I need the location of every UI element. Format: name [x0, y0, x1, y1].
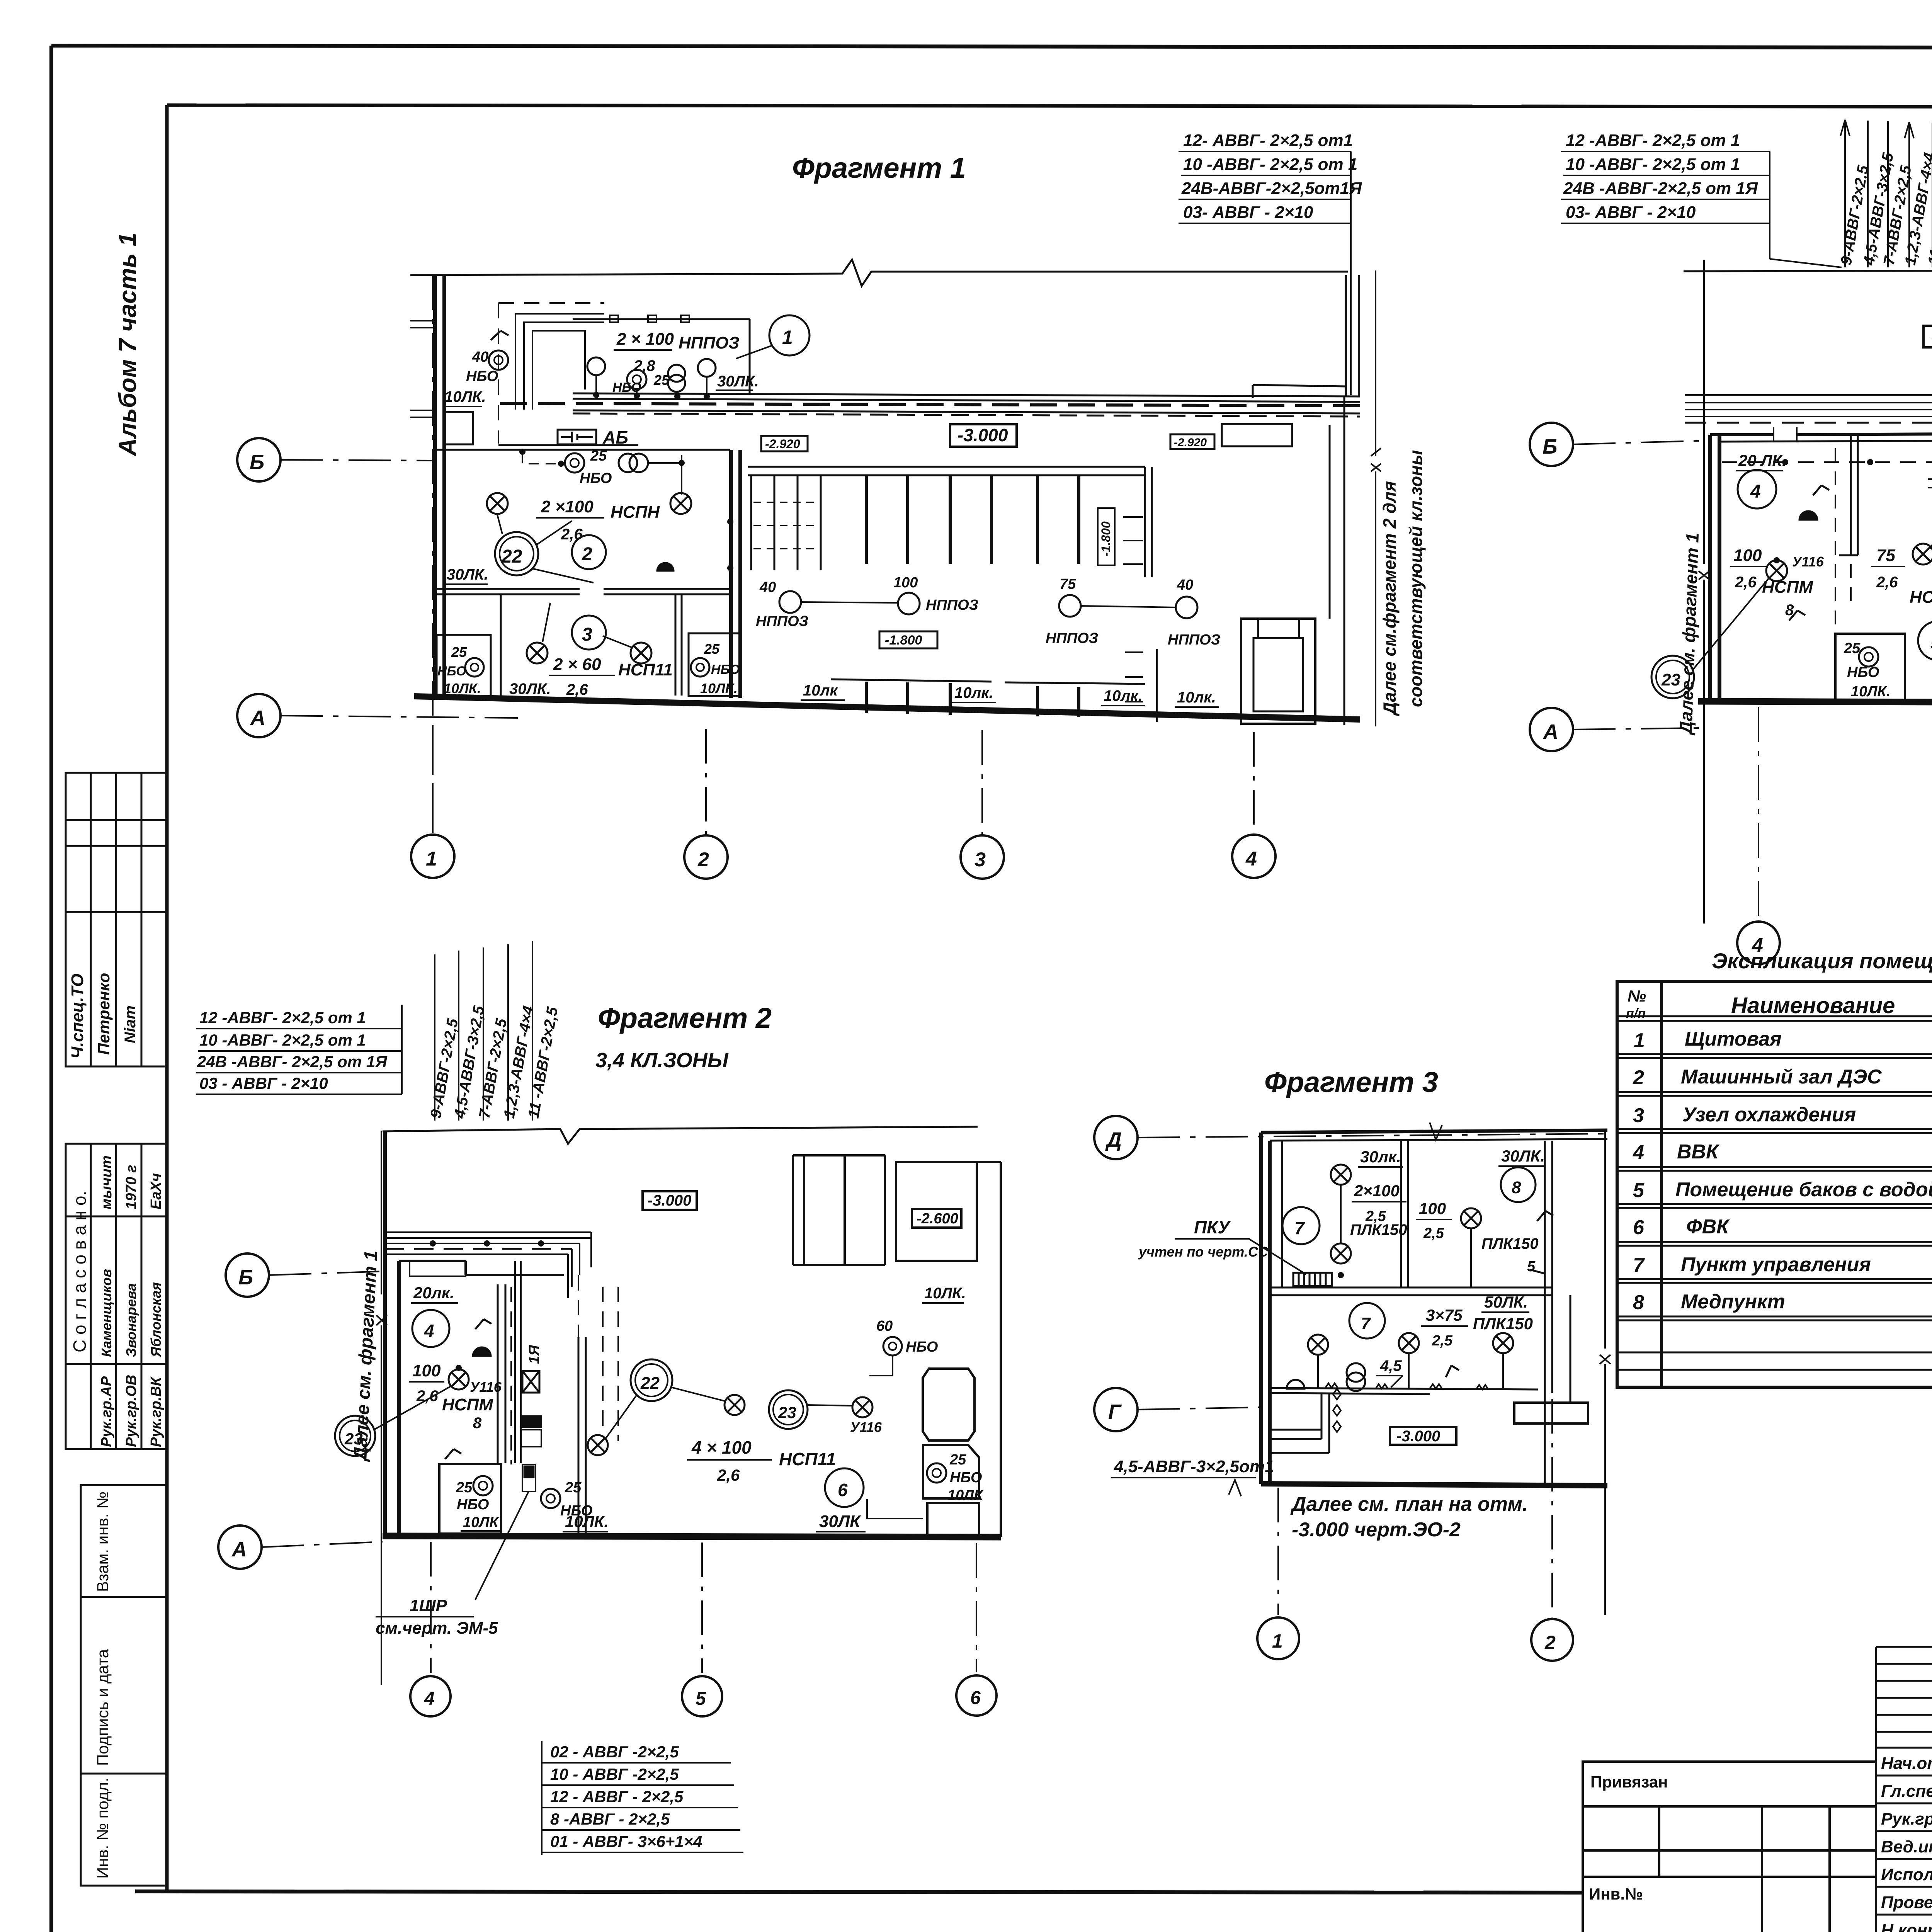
svg-text:22: 22: [640, 1374, 660, 1393]
lamp x right f2b: [852, 1397, 872, 1417]
svg-text:Узел охлаждения: Узел охлаждения: [1682, 1104, 1856, 1126]
svg-text:2,6: 2,6: [717, 1466, 740, 1484]
room 6 circle f2b: [825, 1468, 864, 1507]
right room walls: [1253, 385, 1346, 725]
stairs left f3: [1270, 1393, 1329, 1453]
svg-text:4,5-АВВГ-3×2,5от1: 4,5-АВВГ-3×2,5от1: [1114, 1457, 1274, 1476]
vent rect top right: [1222, 424, 1292, 446]
SECTION: leftmargin: [66, 233, 167, 1886]
svg-text:2 × 60: 2 × 60: [553, 655, 601, 674]
SECTION: frag2top: [1530, 120, 1932, 964]
switches f2b: [445, 1319, 492, 1459]
svg-text:10 -АВВГ- 2×2,5 от 1: 10 -АВВГ- 2×2,5 от 1: [1566, 155, 1740, 174]
svg-text:7: 7: [1633, 1254, 1645, 1277]
right wall f2b: [977, 1162, 1001, 1537]
svg-text:Нач.отд: Нач.отд: [1881, 1754, 1932, 1773]
svg-text:10ЛК.: 10ЛК.: [565, 1512, 609, 1531]
wire right f2b: [867, 1355, 923, 1519]
bottom note f3: [1290, 1493, 1528, 1541]
cut line left f2b: [381, 1131, 382, 1685]
svg-text:75: 75: [1060, 576, 1076, 592]
column circle 5 f2b: [682, 1676, 722, 1716]
svg-text:Альбом 7 часть 1: Альбом 7 часть 1: [114, 233, 141, 457]
svg-text:НППОЗ: НППОЗ: [1046, 630, 1098, 646]
svg-text:НБО: НБО: [950, 1469, 982, 1486]
column circle 1 f3: [1257, 1617, 1299, 1659]
lamp sconce 25 room1: [627, 370, 646, 389]
svg-text:3: 3: [582, 624, 592, 645]
box -3.000 f2b: [643, 1191, 697, 1210]
SECTION: frag1: [237, 131, 1426, 879]
svg-text:40: 40: [759, 579, 776, 595]
svg-text:20 ЛК.: 20 ЛК.: [1738, 451, 1787, 469]
svg-text:ПЛК150: ПЛК150: [1473, 1315, 1533, 1333]
transformer lamp room2: [619, 454, 637, 472]
svg-text:5: 5: [1930, 633, 1932, 653]
top wall f2: [1710, 433, 1932, 435]
svg-text:Звонарева: Звонарева: [123, 1283, 139, 1357]
svg-text:Далее см. план на отм.: Далее см. план на отм.: [1290, 1493, 1528, 1515]
wires room2: [649, 455, 730, 568]
svg-text:Б: Б: [1543, 435, 1557, 458]
lamp pendant room1 right: [698, 359, 716, 377]
axis Г f3: [1094, 1388, 1138, 1431]
svg-text:ВВК: ВВК: [1677, 1141, 1719, 1163]
svg-text:8: 8: [1633, 1291, 1644, 1314]
axis А circle: [237, 694, 281, 737]
svg-text:НБО: НБО: [437, 664, 466, 679]
svg-text:8: 8: [473, 1415, 482, 1432]
svg-text:4 × 100: 4 × 100: [691, 1437, 752, 1458]
lamp x room8 f3: [1461, 1208, 1481, 1228]
group 23 circle left f2: [1651, 656, 1694, 698]
svg-text:НСПМ: НСПМ: [1762, 578, 1813, 597]
svg-text:1ШР: 1ШР: [410, 1596, 447, 1615]
wires dashed room4 f2: [1835, 448, 1851, 634]
axis verticals to column circles: [433, 726, 1254, 834]
svg-text:02 - АВВГ -2×2,5: 02 - АВВГ -2×2,5: [550, 1743, 679, 1761]
svg-text:40: 40: [1177, 577, 1193, 593]
svg-text:Наименование: Наименование: [1731, 993, 1895, 1018]
svg-text:23: 23: [778, 1403, 796, 1422]
building top line f2: [1684, 257, 1932, 283]
platform right f3: [1514, 1403, 1588, 1423]
box -3.000 f3: [1390, 1427, 1456, 1445]
lamp x room2 left: [487, 493, 508, 514]
axis Б f2: [1530, 423, 1573, 466]
label 2x100/2,8 НППОЗ: [612, 330, 759, 395]
box 25 НБО bottom f2b: [439, 1464, 501, 1534]
Подпись и дата cell: [81, 1597, 167, 1774]
svg-text:4,5: 4,5: [1380, 1357, 1402, 1374]
box -2.920 left: [761, 436, 808, 451]
svg-text:ПКУ: ПКУ: [1194, 1217, 1231, 1237]
svg-text:Рук.гр.АР: Рук.гр.АР: [99, 1376, 115, 1447]
box 25 НБО right f2b: [923, 1445, 979, 1498]
switch bottom f3: [1446, 1366, 1459, 1377]
svg-text:С о г л а с о в а н о.: С о г л а с о в а н о.: [70, 1191, 90, 1352]
svg-text:Петренко: Петренко: [95, 973, 113, 1055]
axis line 1 vertical: [432, 275, 434, 833]
room3 walls: [501, 594, 682, 696]
lamp x room3 left: [527, 643, 548, 663]
svg-text:Д: Д: [1105, 1128, 1122, 1151]
svg-text:см.черт. ЭМ-5: см.черт. ЭМ-5: [376, 1619, 498, 1638]
table rows: [1633, 1028, 1932, 1314]
svg-text:-3.000 черт.ЭО-2: -3.000 черт.ЭО-2: [1292, 1519, 1461, 1541]
svg-text:100: 100: [1419, 1199, 1446, 1218]
svg-text:24В -АВВГ- 2×2,5 от 1Я: 24В -АВВГ- 2×2,5 от 1Я: [197, 1053, 388, 1071]
left wall f2b: [385, 1131, 399, 1536]
Инв.№подл cell: [81, 1774, 167, 1886]
sconce 25 НБО center f2b: [541, 1489, 560, 1508]
Согласовано block: [66, 1144, 167, 1449]
svg-text:НБО: НБО: [466, 368, 498, 384]
cable fan labels fragment 2 top: [1838, 120, 1932, 267]
battery room conduit rails: [515, 314, 604, 410]
SECTION: titleblock: [1583, 1647, 1932, 1932]
cable bundle f2b: [385, 1232, 591, 1254]
svg-text:2: 2: [1544, 1632, 1556, 1653]
svg-text:2,5: 2,5: [1423, 1225, 1444, 1242]
svg-text:Рук.гр.ОВ: Рук.гр.ОВ: [123, 1375, 139, 1447]
wire top outline of building: [410, 260, 1348, 286]
wall left double: [435, 275, 444, 698]
svg-text:Гл.спец.: Гл.спец.: [1881, 1782, 1932, 1801]
svg-text:Инв.№: Инв.№: [1589, 1885, 1643, 1903]
svg-text:03- АВВГ - 2×10: 03- АВВГ - 2×10: [1183, 203, 1313, 222]
box -1.800 mid: [879, 631, 937, 648]
svg-text:30лк.: 30лк.: [1360, 1148, 1401, 1166]
wall vertical right of rooms: [731, 450, 740, 698]
svg-text:НБО: НБО: [1847, 664, 1879, 680]
svg-text:-2.600: -2.600: [917, 1211, 958, 1227]
hall upper ticks: [866, 476, 1079, 564]
svg-text:25: 25: [1844, 640, 1861, 656]
lamp twin room1: [668, 365, 685, 382]
svg-text:10 -АВВГ- 2×2,5 от 1: 10 -АВВГ- 2×2,5 от 1: [199, 1031, 366, 1049]
SECTION: table: [1617, 949, 1932, 1387]
svg-text:2,5: 2,5: [1432, 1333, 1453, 1349]
svg-text:-3.000: -3.000: [648, 1192, 691, 1209]
dome lamp f3: [1287, 1380, 1304, 1389]
inner drawing frame left: [165, 105, 169, 1891]
svg-text:НСПМ: НСПМ: [1910, 588, 1932, 607]
column circle 6 f2b: [956, 1675, 997, 1716]
svg-text:НБО: НБО: [580, 470, 612, 486]
axis Б circle: [237, 438, 281, 481]
building top line f2b: [383, 1127, 978, 1144]
svg-text:-2.920: -2.920: [765, 437, 800, 451]
svg-text:8: 8: [1512, 1178, 1521, 1197]
left margin cells with rotated entries: [66, 912, 167, 1066]
wire between lamps room7 f3: [1340, 1185, 1342, 1243]
axis verticals f3: [1278, 1399, 1552, 1617]
svg-text:2 ×100: 2 ×100: [541, 497, 594, 516]
svg-text:2×100: 2×100: [1354, 1182, 1400, 1200]
alcove rect f2b: [410, 1261, 466, 1276]
svg-text:1Я: 1Я: [526, 1345, 543, 1364]
svg-text:22: 22: [501, 546, 522, 567]
plan outline f3: [1261, 1133, 1270, 1484]
axis Б f2b: [226, 1253, 269, 1297]
svg-text:-3.000: -3.000: [957, 425, 1008, 445]
black boxes f2b: [521, 1416, 541, 1427]
Взам.инв. cell: [81, 1485, 167, 1597]
column circle 4: [1232, 835, 1276, 878]
twin circles lamp f3: [1347, 1363, 1365, 1382]
inner partitions f3: [1282, 1141, 1408, 1287]
svg-text:ЕаХч: ЕаХч: [148, 1173, 164, 1209]
svg-text:12- АВВГ- 2×2,5 от1: 12- АВВГ- 2×2,5 от1: [1183, 131, 1353, 150]
svg-text:1970 г: 1970 г: [123, 1165, 139, 1209]
svg-text:НБО: НБО: [906, 1339, 938, 1355]
leader circle 1: [769, 315, 810, 355]
svg-text:25: 25: [456, 1480, 473, 1496]
group 23 circle mid f2b: [769, 1390, 808, 1429]
svg-text:2,6: 2,6: [1735, 574, 1757, 591]
svg-text:2,6: 2,6: [561, 526, 583, 543]
svg-text:2,6: 2,6: [1876, 574, 1898, 591]
niche box: [444, 412, 473, 444]
cable fan labels fragment 2 lower: [427, 941, 561, 1121]
break bottom f3: [1229, 1480, 1241, 1496]
label 4x100 f2b: [691, 1437, 836, 1484]
left margin approval table top: [66, 773, 167, 912]
X vent box f2b: [522, 1371, 539, 1393]
main room left wall f2: [1710, 435, 1719, 701]
room 7 bottom f3: [1349, 1303, 1385, 1338]
room 5 f2: [1918, 621, 1932, 660]
tank f2b: [923, 1369, 975, 1440]
svg-text:п/п: п/п: [1626, 1006, 1646, 1021]
cable list fragment 1: [1179, 131, 1362, 395]
axis А f2: [1530, 708, 1573, 751]
svg-text:10ЛК: 10ЛК: [463, 1514, 499, 1531]
svg-text:03- АВВГ - 2×10: 03- АВВГ - 2×10: [1566, 203, 1696, 222]
switch hook top left: [491, 331, 509, 340]
svg-text:4: 4: [424, 1689, 435, 1709]
svg-text:Г: Г: [1108, 1400, 1122, 1423]
svg-text:100: 100: [412, 1361, 441, 1380]
svg-text:4: 4: [1245, 848, 1257, 870]
group 22 circle f2b: [631, 1359, 672, 1401]
svg-text:Рук.гр.ВК: Рук.гр.ВК: [148, 1376, 164, 1447]
svg-text:Рук.гр.: Рук.гр.: [1881, 1810, 1932, 1828]
box room bottom-left: [437, 635, 491, 696]
svg-text:Пункт управления: Пункт управления: [1681, 1253, 1871, 1276]
svg-text:03 - АВВГ - 2×10: 03 - АВВГ - 2×10: [199, 1074, 328, 1092]
room 7 top f3: [1282, 1207, 1320, 1244]
lamp pendant NBO room1: [587, 357, 605, 375]
cable bundle f2: [1685, 395, 1932, 417]
svg-text:Каменщиков: Каменщиков: [99, 1269, 114, 1357]
svg-text:НСП11: НСП11: [618, 660, 673, 679]
sconce 25 НБО room2: [565, 453, 584, 473]
svg-text:30ЛК: 30ЛК: [819, 1512, 861, 1531]
wires dashed center f2b: [603, 1287, 618, 1441]
bottom wall of room7 f3: [1270, 1388, 1538, 1389]
svg-text:-1.800: -1.800: [1099, 521, 1113, 556]
box -2.920 right: [1170, 434, 1214, 449]
wall bottom thick: [414, 696, 1360, 719]
svg-text:2 × 100: 2 × 100: [616, 330, 674, 349]
corridor wall lines with cable run: [573, 393, 1360, 413]
svg-text:Провер.: Провер.: [1881, 1893, 1932, 1912]
svg-text:6: 6: [838, 1480, 848, 1500]
cut line right with breaks: [1375, 270, 1376, 726]
dome lamp room2: [657, 563, 674, 571]
svg-text:Далее см.фрагмент 2 для: Далее см.фрагмент 2 для: [1379, 481, 1400, 716]
svg-text:Б: Б: [238, 1266, 253, 1289]
switch room8 f3: [1530, 1211, 1553, 1274]
svg-text:25: 25: [949, 1452, 966, 1468]
wire stems lamps room1: [596, 376, 707, 396]
hall stair verticals: [751, 476, 821, 570]
svg-text:ПЛК150: ПЛК150: [1481, 1235, 1539, 1252]
lamp x top room7 f3: [1331, 1165, 1351, 1185]
break top f3: [1430, 1122, 1442, 1140]
svg-text:мычит: мычит: [99, 1155, 115, 1209]
svg-text:Привязан: Привязан: [1590, 1773, 1668, 1791]
lamp x room2 right: [670, 493, 691, 514]
svg-text:Фрагмент 1: Фрагмент 1: [792, 152, 966, 184]
svg-text:НППОЗ: НППОЗ: [1168, 632, 1220, 648]
svg-text:учтен по черт.СС: учтен по черт.СС: [1138, 1244, 1269, 1260]
svg-text:24В-АВВГ-2×2,5от1Я: 24В-АВВГ-2×2,5от1Я: [1181, 179, 1362, 198]
svg-text:12 -АВВГ- 2×2,5 от 1: 12 -АВВГ- 2×2,5 от 1: [1566, 131, 1740, 150]
svg-text:НППОЗ: НППОЗ: [679, 333, 740, 352]
axis А f2b: [218, 1526, 262, 1569]
room circle 3: [572, 616, 606, 650]
svg-text:НППОЗ: НППОЗ: [926, 597, 978, 613]
svg-text:40: 40: [472, 349, 488, 365]
svg-text:НСП11: НСП11: [779, 1449, 836, 1469]
column circle 2: [684, 835, 728, 879]
svg-text:10лк.: 10лк.: [1104, 687, 1143, 704]
inner drawing frame top: [167, 105, 1932, 107]
svg-text:30ЛК.: 30ЛК.: [447, 566, 488, 583]
cable dashed corridor: [500, 403, 1360, 406]
svg-text:Niam: Niam: [122, 1005, 139, 1043]
svg-text:Щитовая: Щитовая: [1685, 1028, 1782, 1050]
label 2x100 f3: [1350, 1182, 1407, 1238]
riser rails f2b: [515, 1261, 521, 1463]
group circle 22: [495, 532, 538, 575]
svg-text:№: №: [1628, 987, 1646, 1005]
svg-text:23: 23: [1661, 670, 1680, 689]
svg-text:10лк: 10лк: [803, 682, 838, 699]
bottom wall f2: [1698, 701, 1932, 703]
switches room4 f2: [1789, 485, 1829, 621]
label 2x60 НСП11: [509, 655, 673, 698]
room2 top wall: [435, 449, 730, 451]
svg-text:соответствующей кл.зоны: соответствующей кл.зоны: [1406, 450, 1426, 707]
cut line left f2: [1703, 260, 1705, 923]
SECTION: frag3: [1094, 1066, 1611, 1661]
svg-text:30ЛК.: 30ЛК.: [509, 680, 551, 697]
column circle 4 f2b: [410, 1676, 451, 1716]
svg-text:10 - АВВГ -2×2,5: 10 - АВВГ -2×2,5: [550, 1765, 679, 1783]
svg-text:12 -АВВГ- 2×2,5 от 1: 12 -АВВГ- 2×2,5 от 1: [199, 1009, 366, 1027]
svg-text:-1.800: -1.800: [885, 633, 922, 648]
svg-text:10лк.: 10лк.: [954, 684, 993, 701]
svg-text:3×75: 3×75: [1426, 1306, 1463, 1324]
svg-text:8 -АВВГ - 2×2,5: 8 -АВВГ - 2×2,5: [550, 1810, 670, 1828]
svg-text:А: А: [1543, 720, 1558, 743]
right wall double upper: [1346, 275, 1359, 396]
svg-text:2: 2: [582, 544, 592, 565]
svg-text:НСПН: НСПН: [611, 503, 660, 522]
svg-text:1: 1: [1272, 1630, 1283, 1652]
svg-text:10ЛК: 10ЛК: [947, 1487, 984, 1503]
group 23 circle f2b: [335, 1416, 375, 1456]
svg-text:У116: У116: [850, 1419, 882, 1435]
dome lamp f2b: [473, 1347, 491, 1356]
svg-text:10лк.: 10лк.: [1177, 689, 1216, 706]
svg-text:Машинный зал ДЭС: Машинный зал ДЭС: [1681, 1066, 1882, 1088]
cable list fragment 2 top: [1561, 131, 1842, 267]
right boundary dash f3: [1604, 1130, 1606, 1615]
hall mid wall: [748, 467, 1145, 475]
svg-text:Фрагмент 3: Фрагмент 3: [1264, 1066, 1438, 1098]
svg-text:3: 3: [1633, 1104, 1644, 1127]
svg-text:6: 6: [970, 1688, 981, 1708]
svg-text:4: 4: [1633, 1141, 1644, 1164]
svg-text:24В -АВВГ-2×2,5 от 1Я: 24В -АВВГ-2×2,5 от 1Я: [1563, 179, 1758, 198]
column circle 4 f2: [1737, 922, 1780, 964]
svg-text:2,6: 2,6: [566, 681, 588, 698]
wall stubs left: [410, 321, 435, 417]
svg-text:2: 2: [697, 849, 709, 871]
column circle 3: [961, 835, 1004, 879]
battery AB symbol: [558, 430, 596, 444]
svg-text:Н.контр: Н.контр: [1881, 1921, 1932, 1932]
ticks right column: [1125, 649, 1157, 722]
lamp НСПМ room5 f2: [1913, 544, 1932, 565]
svg-text:1: 1: [426, 848, 437, 870]
svg-text:Экспликация помещений: Экспликация помещений: [1712, 949, 1932, 973]
svg-text:100: 100: [1733, 546, 1762, 565]
signature table: [1876, 1647, 1932, 1932]
svg-text:Медпункт: Медпункт: [1681, 1291, 1785, 1313]
svg-text:25: 25: [451, 644, 467, 660]
partition right of room4 f2b: [498, 1284, 505, 1463]
svg-text:100: 100: [893, 575, 918, 591]
svg-text:3: 3: [975, 849, 986, 871]
svg-text:7: 7: [1294, 1218, 1305, 1238]
svg-text:10ЛК.: 10ЛК.: [444, 388, 486, 405]
label 2x100/2,6 НСПН: [541, 497, 660, 543]
axis verticals f2 bottom: [1759, 707, 1932, 920]
center partition f2b: [578, 1337, 586, 1536]
lower ticks hall: [866, 682, 1079, 717]
svg-text:Инв. № подл.: Инв. № подл.: [94, 1777, 112, 1879]
svg-text:Взам. инв. №: Взам. инв. №: [94, 1492, 112, 1592]
dashed wiring cluster f2: [1722, 461, 1932, 463]
box -2.600 f2b: [912, 1209, 961, 1228]
room2 dashed stub: [522, 453, 561, 464]
svg-text:60: 60: [876, 1318, 893, 1334]
cable list fragment 2 lower: [196, 1005, 402, 1094]
axis verticals f2b: [431, 1542, 976, 1673]
svg-text:10ЛК.: 10ЛК.: [1851, 684, 1890, 700]
10ЛК labels bottom: [803, 682, 1216, 706]
svg-text:25: 25: [704, 641, 720, 657]
lamp 40 НППОЗ right: [1176, 597, 1197, 618]
lamps x bottom room7 f3: [1308, 1335, 1328, 1355]
svg-text:25: 25: [590, 448, 607, 464]
